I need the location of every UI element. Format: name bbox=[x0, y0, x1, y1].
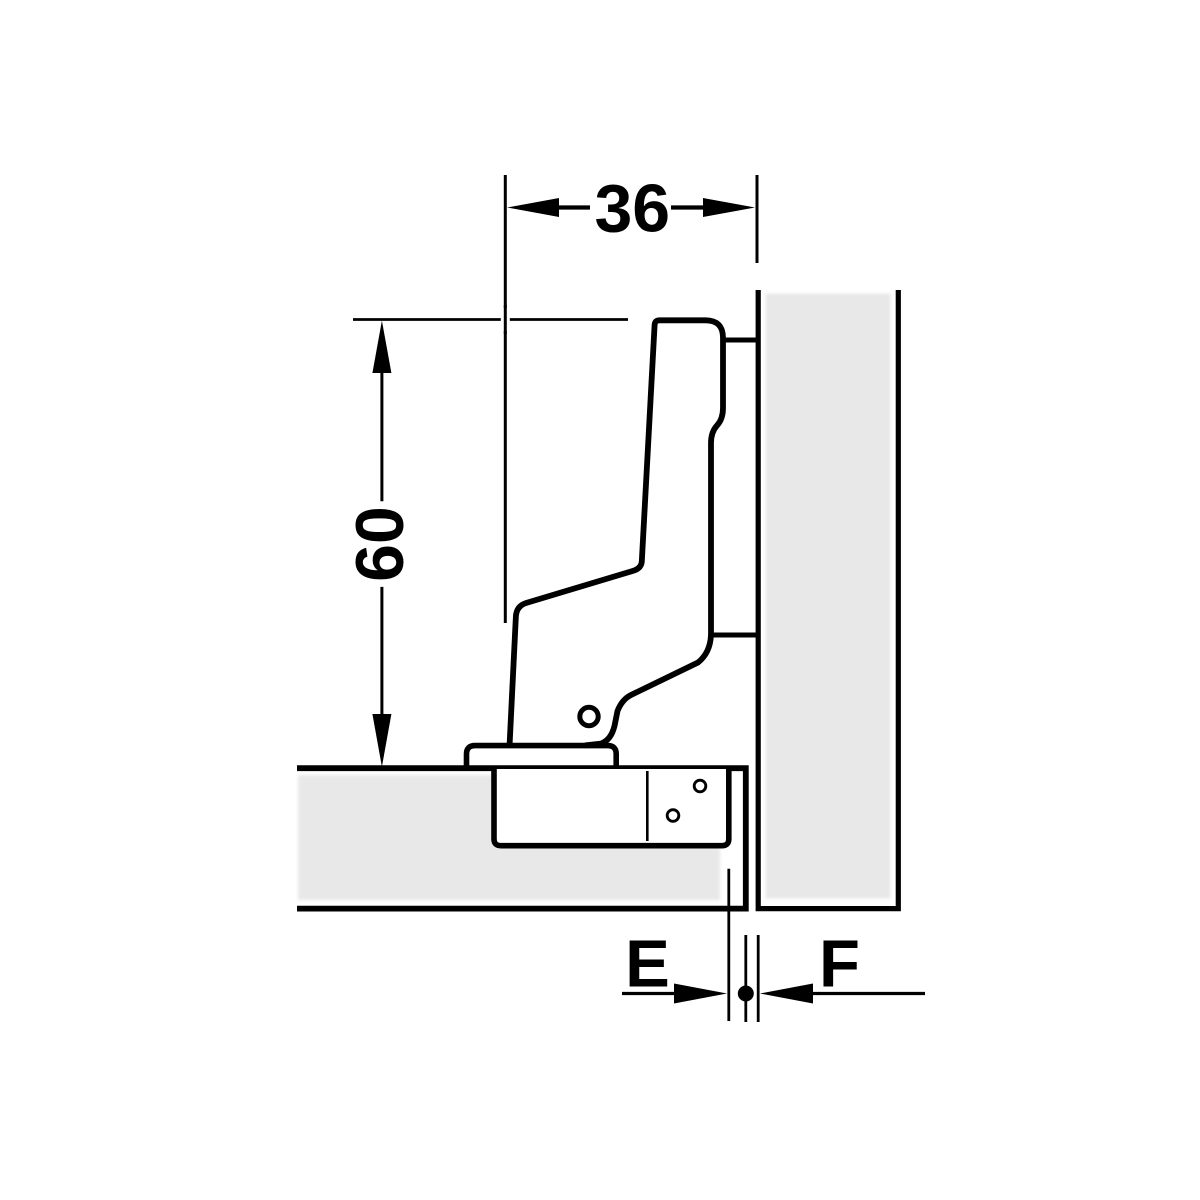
svg-text:E: E bbox=[625, 927, 670, 1002]
svg-text:60: 60 bbox=[342, 506, 418, 582]
svg-text:F: F bbox=[819, 927, 860, 1002]
svg-text:36: 36 bbox=[594, 171, 670, 247]
